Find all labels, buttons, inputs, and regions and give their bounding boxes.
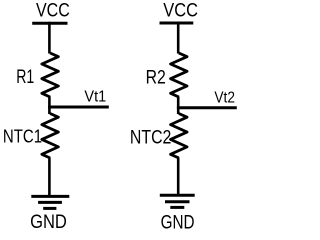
svg-text:VCC: VCC	[36, 1, 70, 22]
svg-text:NTC1: NTC1	[3, 126, 42, 147]
svg-text:NTC2: NTC2	[130, 128, 172, 149]
svg-text:R1: R1	[16, 66, 34, 88]
svg-text:Vt1: Vt1	[84, 88, 106, 105]
svg-text:GND: GND	[30, 211, 67, 233]
svg-text:GND: GND	[161, 212, 195, 234]
svg-text:VCC: VCC	[163, 1, 198, 22]
svg-text:Vt2: Vt2	[214, 90, 235, 107]
svg-text:R2: R2	[146, 67, 166, 89]
